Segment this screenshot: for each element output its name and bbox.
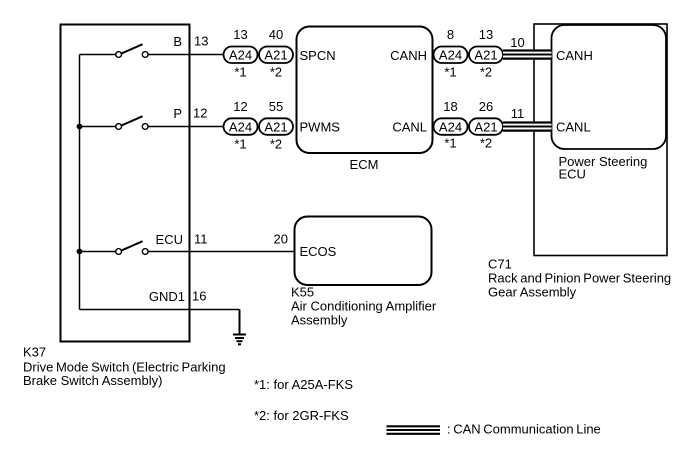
svg-text:26: 26 <box>479 99 493 114</box>
svg-text:SPCN: SPCN <box>300 48 336 63</box>
svg-text:A21: A21 <box>264 48 287 63</box>
svg-text:*1: *1 <box>234 65 246 80</box>
svg-text:ECM: ECM <box>350 157 379 172</box>
svg-text:A21: A21 <box>474 119 497 134</box>
svg-text:*2: *2 <box>270 137 282 152</box>
svg-text:CANH: CANH <box>390 48 427 63</box>
svg-text:12: 12 <box>233 99 247 114</box>
svg-text:8: 8 <box>447 27 454 42</box>
svg-text:A24: A24 <box>229 48 252 63</box>
svg-text:12: 12 <box>193 106 207 121</box>
svg-text:ECOS: ECOS <box>300 244 337 259</box>
svg-text:*2: *2 <box>480 65 492 80</box>
svg-text:P: P <box>173 106 182 121</box>
svg-text:Gear Assembly: Gear Assembly <box>488 285 577 300</box>
svg-text:Assembly: Assembly <box>291 313 348 328</box>
svg-text:*1: *1 <box>444 136 456 151</box>
svg-text:A24: A24 <box>229 119 252 134</box>
svg-text:*1: *1 <box>234 137 246 152</box>
svg-text:*2: *2 <box>480 136 492 151</box>
svg-text:B: B <box>173 34 182 49</box>
svg-text:20: 20 <box>274 232 288 247</box>
svg-text:11: 11 <box>194 232 208 247</box>
svg-text:13: 13 <box>194 34 208 49</box>
svg-text:ECU: ECU <box>156 232 183 247</box>
svg-text:11: 11 <box>511 106 525 121</box>
svg-text:Rack and Pinion Power Steering: Rack and Pinion Power Steering <box>488 271 671 286</box>
svg-text:K55: K55 <box>291 285 314 300</box>
svg-text:Air Conditioning Amplifier: Air Conditioning Amplifier <box>291 299 437 314</box>
svg-text:10: 10 <box>510 35 524 50</box>
svg-text:13: 13 <box>233 27 247 42</box>
svg-text:CANL: CANL <box>392 119 427 134</box>
svg-text:ECU: ECU <box>559 167 586 182</box>
svg-text:GND1: GND1 <box>149 289 185 304</box>
svg-text:55: 55 <box>269 99 283 114</box>
svg-text:: CAN Communication Line: : CAN Communication Line <box>447 422 601 437</box>
svg-text:CANH: CANH <box>556 48 593 63</box>
svg-text:CANL: CANL <box>556 119 591 134</box>
svg-text:A21: A21 <box>474 48 497 63</box>
svg-text:40: 40 <box>269 27 283 42</box>
svg-text:*1: *1 <box>444 65 456 80</box>
svg-text:PWMS: PWMS <box>300 119 341 134</box>
svg-text:K37: K37 <box>23 345 46 360</box>
svg-text:*2: for 2GR-FKS: *2: for 2GR-FKS <box>254 408 349 423</box>
svg-text:18: 18 <box>443 99 457 114</box>
svg-text:16: 16 <box>192 289 206 304</box>
svg-text:C71: C71 <box>488 257 512 272</box>
svg-text:13: 13 <box>479 27 493 42</box>
svg-text:A24: A24 <box>439 48 462 63</box>
svg-text:A24: A24 <box>439 119 462 134</box>
svg-text:Brake Switch Assembly): Brake Switch Assembly) <box>23 373 162 388</box>
svg-text:A21: A21 <box>264 119 287 134</box>
svg-text:*2: *2 <box>270 65 282 80</box>
svg-text:*1: for A25A-FKS: *1: for A25A-FKS <box>254 377 353 392</box>
